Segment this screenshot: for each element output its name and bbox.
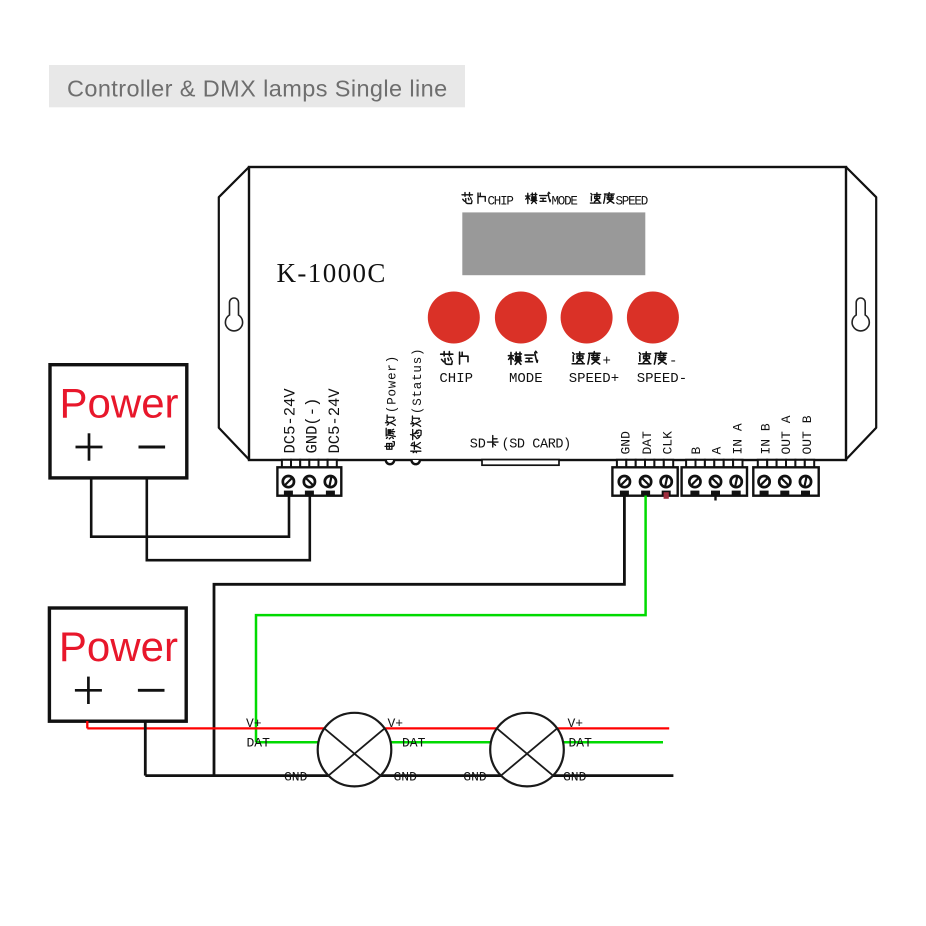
svg-text:GND: GND [284,770,308,785]
wire: power2 + red stub [86,721,88,728]
svg-text:GND: GND [394,770,418,785]
svg-text:Power: Power [59,623,178,670]
svg-text:DAT: DAT [402,735,426,750]
DMX lamp L2 [490,713,564,787]
label 电源灯(Power) [385,355,400,449]
svg-text:(Status): (Status) [411,348,425,414]
button labels [439,351,687,387]
button SPEED+ [561,292,613,344]
button MODE [495,292,547,344]
svg-text:SPEED-: SPEED- [637,371,687,387]
svg-text:CLK: CLK [660,431,675,455]
wire: GND from data block down-left to lamp bus [214,496,624,776]
svg-text:(Power): (Power) [386,355,400,413]
svg-text:MODE: MODE [509,371,543,387]
terminal block DMX B/A/IN A [686,460,695,468]
svg-text:DAT: DAT [569,735,593,750]
svg-text:V+: V+ [246,716,262,731]
svg-text:B: B [689,447,704,455]
SD card slot [482,460,559,466]
power terminal labels DC5-24V / GND(-) / DC5-24V [282,388,300,454]
svg-text:IN A: IN A [730,423,745,454]
button CHIP [428,292,480,344]
svg-text:(SD CARD): (SD CARD) [502,438,571,453]
power supply box P2 [49,608,186,721]
svg-text:K-1000C: K-1000C [277,258,387,288]
svg-text:-: - [669,354,677,370]
wire: DAT green from data block to lamp DAT bus [256,496,646,743]
svg-text:V+: V+ [568,716,584,731]
stub under terminal A [714,496,716,501]
terminal block power DC5-24V [282,460,291,468]
SD card label [470,436,571,453]
controller right mounting ear [846,167,876,460]
svg-text:Controller & DMX lamps Single: Controller & DMX lamps Single line [67,76,448,102]
DMX lamp L1 [318,713,392,787]
svg-text:DAT: DAT [247,735,271,750]
svg-text:SPEED+: SPEED+ [569,371,619,387]
power supply box P1 [50,365,187,478]
svg-text:OUT B: OUT B [800,415,815,454]
title bar [49,65,465,107]
wire: power1 - to GND(-) terminal [147,478,310,560]
svg-text:GND: GND [463,770,487,785]
svg-text:DAT: DAT [640,431,655,455]
svg-text:GND(-): GND(-) [304,398,322,454]
wire: V+ red bus [87,727,669,729]
status LED [412,460,420,464]
LCD display [462,212,645,275]
svg-text:A: A [710,447,725,455]
svg-text:GND: GND [563,770,587,785]
svg-text:SD: SD [470,438,486,453]
svg-text:IN B: IN B [758,423,773,454]
wire: DAT green bus [256,741,663,744]
left ear keyhole [225,298,242,331]
svg-text:CHIP: CHIP [439,371,473,387]
svg-text:DC5-24V: DC5-24V [326,388,344,454]
svg-text:V+: V+ [388,716,404,731]
terminal block IN B/OUT A/OUT B [758,460,767,468]
button SPEED- [627,292,679,344]
svg-text:Power: Power [60,380,179,427]
red mark under CLK [664,492,669,499]
svg-text:SPEED: SPEED [616,195,648,209]
data terminal labels [619,431,634,455]
terminal block data GND/DAT/CLK [617,460,626,468]
controller left mounting ear [219,167,249,460]
svg-text:+: + [603,354,611,370]
wire: GND black bus [145,774,673,777]
label 状态灯(Status) [411,348,425,453]
right ear keyhole [852,298,869,331]
wire: power1 + to DC5-24V terminal [91,478,289,537]
svg-text:MODE: MODE [552,195,578,209]
power LED [386,460,394,464]
svg-text:GND: GND [619,431,634,455]
controller main box [249,167,846,460]
display header labels [462,192,648,208]
svg-text:CHIP: CHIP [488,195,514,209]
wire: power2 - stub [144,721,147,776]
svg-text:DC5-24V: DC5-24V [282,388,300,454]
svg-text:OUT A: OUT A [779,415,794,454]
